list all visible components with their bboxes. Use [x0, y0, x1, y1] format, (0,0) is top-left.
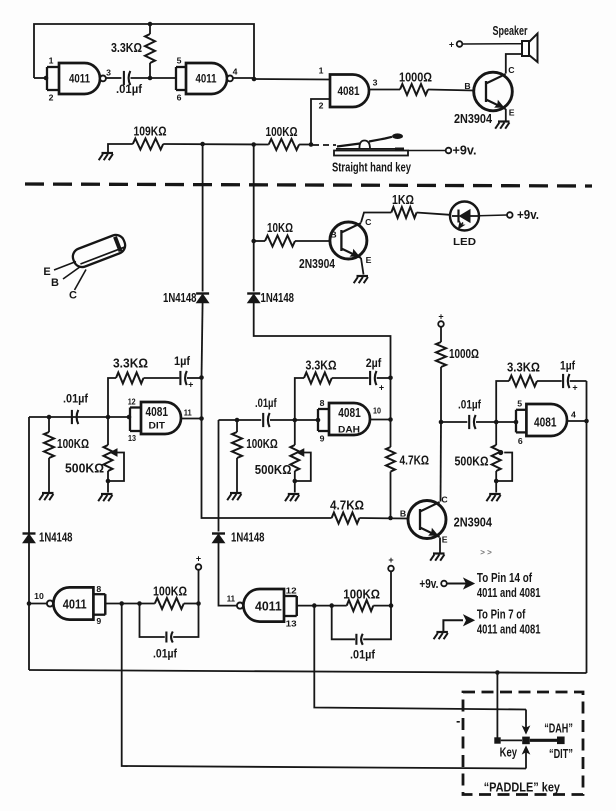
svg-text:1N4148: 1N4148: [39, 531, 73, 545]
svg-text:B: B: [464, 81, 470, 91]
svg-text:4011: 4011: [255, 599, 282, 613]
svg-text:.01µf: .01µf: [458, 400, 481, 412]
svg-text:E: E: [442, 535, 448, 545]
svg-text:13: 13: [128, 433, 136, 443]
svg-text:2: 2: [319, 101, 324, 111]
svg-text:6: 6: [177, 93, 182, 103]
svg-text:+: +: [438, 312, 443, 322]
svg-text:100KΩ: 100KΩ: [57, 436, 89, 451]
svg-text:1000Ω: 1000Ω: [399, 70, 432, 85]
svg-text:4.7KΩ: 4.7KΩ: [330, 498, 364, 513]
svg-text:5: 5: [177, 56, 182, 66]
svg-text:“DAH”: “DAH”: [544, 721, 573, 736]
svg-text:10: 10: [34, 591, 44, 601]
svg-text:12: 12: [286, 585, 297, 595]
svg-text:100KΩ: 100KΩ: [266, 124, 298, 139]
svg-text:.01µf: .01µf: [63, 393, 88, 405]
svg-text:B: B: [400, 509, 406, 519]
svg-text:9: 9: [320, 434, 325, 444]
svg-text:B: B: [330, 230, 336, 240]
svg-text:+9v.: +9v.: [517, 207, 539, 222]
svg-text:4.7KΩ: 4.7KΩ: [400, 453, 430, 468]
svg-text:100KΩ: 100KΩ: [343, 586, 380, 601]
svg-text:E: E: [509, 108, 515, 118]
svg-text:4081: 4081: [338, 406, 361, 420]
svg-text:Straight hand key: Straight hand key: [332, 160, 412, 175]
svg-text:1N4148: 1N4148: [261, 291, 295, 305]
svg-text:To Pin 7 of: To Pin 7 of: [477, 607, 526, 622]
svg-text:.01µf: .01µf: [350, 649, 375, 661]
svg-text:1KΩ: 1KΩ: [392, 192, 414, 207]
svg-text:100KΩ: 100KΩ: [246, 436, 278, 451]
svg-text:6: 6: [518, 436, 523, 446]
svg-text:˃ ˃: ˃ ˃: [480, 548, 492, 557]
svg-text:5: 5: [517, 399, 522, 409]
svg-text:+: +: [188, 380, 193, 390]
svg-text:3.3KΩ: 3.3KΩ: [113, 356, 148, 371]
svg-text:C: C: [508, 65, 515, 75]
svg-text:4011: 4011: [196, 72, 217, 86]
svg-text:1µf: 1µf: [174, 356, 190, 368]
svg-text:11: 11: [184, 408, 192, 418]
svg-text:LED: LED: [453, 237, 476, 248]
svg-text:3: 3: [373, 78, 378, 88]
svg-text:+9v.: +9v.: [419, 576, 438, 591]
svg-text:2: 2: [49, 93, 54, 103]
svg-text:“DIT”: “DIT”: [549, 746, 573, 761]
svg-text:+: +: [449, 40, 454, 50]
svg-text:+: +: [379, 383, 384, 393]
svg-text:4011: 4011: [69, 72, 90, 86]
svg-text:3: 3: [106, 68, 111, 78]
svg-text:2N3904: 2N3904: [454, 111, 493, 126]
svg-text:1N4148: 1N4148: [231, 531, 265, 545]
svg-text:1N4148: 1N4148: [163, 291, 197, 305]
svg-text:+: +: [388, 555, 393, 565]
svg-text:9: 9: [96, 616, 101, 626]
svg-text:8: 8: [96, 584, 101, 594]
svg-text:10: 10: [373, 405, 381, 415]
svg-text:500KΩ: 500KΩ: [455, 454, 489, 469]
svg-text:500KΩ: 500KΩ: [65, 461, 104, 476]
svg-text:C: C: [441, 495, 448, 505]
svg-text:3.3KΩ: 3.3KΩ: [507, 360, 540, 375]
svg-text:2µf: 2µf: [366, 358, 382, 370]
svg-text:+: +: [196, 554, 201, 564]
svg-text:+9v.: +9v.: [453, 143, 477, 158]
svg-text:“PADDLE” key: “PADDLE” key: [484, 779, 561, 794]
svg-text:1: 1: [49, 56, 54, 66]
svg-text:13: 13: [286, 619, 297, 629]
svg-text:11: 11: [227, 594, 235, 604]
svg-text:3.3KΩ: 3.3KΩ: [306, 358, 337, 373]
svg-text:4081: 4081: [146, 405, 169, 419]
svg-text:B: B: [51, 277, 59, 289]
svg-text:109KΩ: 109KΩ: [134, 123, 167, 138]
svg-text:4: 4: [233, 67, 238, 77]
svg-text:.01µf: .01µf: [153, 648, 177, 660]
svg-text:Key: Key: [500, 744, 518, 759]
svg-text:2N3904: 2N3904: [299, 256, 336, 271]
svg-text:4081: 4081: [338, 84, 360, 98]
svg-text:2N3904: 2N3904: [454, 515, 493, 530]
svg-text:3.3KΩ: 3.3KΩ: [111, 40, 142, 55]
svg-text:4: 4: [571, 409, 576, 419]
svg-text:E: E: [366, 255, 372, 265]
svg-text:4011: 4011: [63, 597, 87, 611]
svg-text:.01µf: .01µf: [116, 84, 142, 96]
svg-text:C: C: [69, 290, 77, 302]
svg-text:1µf: 1µf: [560, 361, 575, 373]
svg-text:+: +: [572, 383, 577, 393]
svg-text:10KΩ: 10KΩ: [267, 220, 293, 235]
svg-text:1000Ω: 1000Ω: [449, 346, 479, 361]
svg-text:C: C: [365, 217, 372, 227]
svg-text:DAH: DAH: [338, 425, 360, 436]
svg-text:DIT: DIT: [149, 421, 166, 432]
svg-text:12: 12: [128, 397, 136, 407]
svg-text:E: E: [43, 266, 50, 278]
svg-text:1: 1: [319, 66, 324, 76]
svg-text:.01µf: .01µf: [255, 398, 277, 410]
svg-text:8: 8: [320, 398, 325, 408]
svg-text:4011 and 4081: 4011 and 4081: [477, 622, 541, 637]
svg-text:4011 and 4081: 4011 and 4081: [477, 585, 541, 600]
svg-text:4081: 4081: [534, 415, 557, 429]
svg-text:500KΩ: 500KΩ: [255, 462, 292, 477]
svg-text:100KΩ: 100KΩ: [153, 583, 187, 598]
svg-text:Speaker: Speaker: [493, 23, 528, 38]
svg-text:To Pin 14 of: To Pin 14 of: [477, 570, 533, 585]
